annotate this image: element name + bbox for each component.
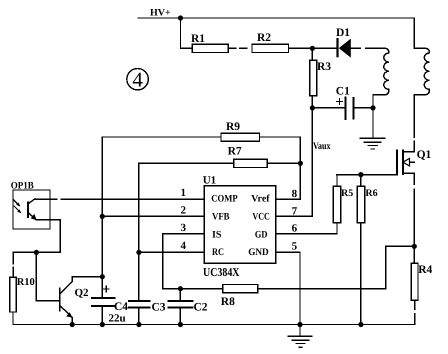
svg-text:C2: C2 <box>194 302 208 314</box>
svg-text:R7: R7 <box>228 146 242 158</box>
svg-text:7: 7 <box>292 206 298 218</box>
svg-text:22u: 22u <box>109 313 126 325</box>
svg-text:R3: R3 <box>317 61 331 73</box>
svg-text:4: 4 <box>181 240 187 252</box>
svg-text:R6: R6 <box>365 188 377 199</box>
svg-text:COMP: COMP <box>211 193 237 204</box>
svg-text:R10: R10 <box>17 277 35 288</box>
svg-text:R1: R1 <box>191 33 205 45</box>
svg-text:RC: RC <box>212 247 224 258</box>
svg-text:5: 5 <box>292 241 298 253</box>
svg-text:VFB: VFB <box>212 212 230 223</box>
svg-text:U1: U1 <box>203 174 216 186</box>
svg-text:IS: IS <box>212 229 222 240</box>
svg-text:Vref: Vref <box>251 193 270 204</box>
svg-text:C4: C4 <box>114 301 128 313</box>
svg-text:D1: D1 <box>336 27 350 39</box>
svg-text:3: 3 <box>181 222 187 234</box>
svg-text:GD: GD <box>255 229 268 240</box>
svg-text:R9: R9 <box>226 121 240 133</box>
svg-text:2: 2 <box>181 204 187 216</box>
svg-text:8: 8 <box>292 188 298 200</box>
svg-text:GND: GND <box>248 247 269 258</box>
svg-text:Vaux: Vaux <box>313 141 331 152</box>
svg-text:VCC: VCC <box>252 212 270 223</box>
svg-text:OP1B: OP1B <box>11 181 34 192</box>
svg-text:HV+: HV+ <box>150 8 171 19</box>
svg-text:UC384X: UC384X <box>203 265 240 279</box>
svg-text:1: 1 <box>181 187 187 199</box>
svg-text:R2: R2 <box>257 32 271 44</box>
svg-text:R4: R4 <box>418 264 432 276</box>
svg-text:C1: C1 <box>336 86 350 98</box>
svg-text:6: 6 <box>292 222 298 234</box>
svg-text:R5: R5 <box>341 188 353 199</box>
svg-text:R8: R8 <box>221 296 235 308</box>
svg-text:4: 4 <box>132 67 143 91</box>
svg-text:C3: C3 <box>152 302 166 314</box>
svg-text:Q1: Q1 <box>417 149 432 161</box>
svg-text:Q2: Q2 <box>75 287 90 299</box>
